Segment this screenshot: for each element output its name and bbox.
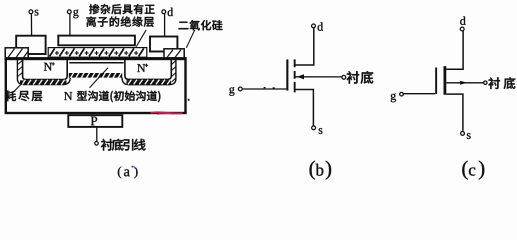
depletion hook right of channel bbox=[122, 77, 128, 84]
blue ink specks on (a) bbox=[132, 166, 137, 169]
P-type body outline bbox=[5, 57, 187, 113]
label 衬底 (c) bbox=[488, 77, 515, 89]
wire source lead (b) bbox=[296, 90, 314, 126]
gate plate (c) bbox=[435, 68, 437, 95]
channel bar (c) bbox=[444, 66, 447, 95]
leader line depletion layer bbox=[15, 83, 22, 91]
wire gate lead (c) bbox=[403, 93, 435, 95]
source electrode box bbox=[16, 36, 45, 54]
gate electrode box bbox=[58, 36, 135, 46]
channel segment bottom (b) bbox=[294, 82, 296, 93]
label 衬底引线 substrate lead bbox=[101, 139, 146, 151]
channel segment middle (b) bbox=[294, 71, 296, 79]
channel top boundary line bbox=[69, 62, 123, 64]
mosfet symbol (b) : terminal g bbox=[229, 87, 242, 96]
terminal s bbox=[29, 10, 38, 16]
leader line to insulating layer bbox=[136, 30, 146, 47]
terminal s (c) bbox=[461, 132, 471, 139]
depletion boundary around left well bbox=[17, 60, 70, 85]
channel segment top (b) bbox=[294, 59, 296, 67]
substrate arrow (c) bbox=[460, 81, 467, 85]
leader line to silicon dioxide bbox=[186, 30, 195, 48]
leader line to channel bbox=[90, 68, 109, 88]
wire source lead (c) bbox=[446, 94, 463, 131]
right hatched drain contact bbox=[164, 49, 184, 59]
gate plate (b) bbox=[286, 59, 288, 90]
terminal d (b) bbox=[312, 22, 323, 30]
label: 二氧化硅 silicon dioxide bbox=[179, 20, 223, 30]
terminal g (c) bbox=[391, 92, 404, 102]
label P bbox=[91, 117, 97, 126]
hatch left strip bbox=[18, 61, 23, 77]
ink speck near body corner bbox=[188, 99, 190, 101]
substrate terminal (c) bbox=[484, 81, 487, 84]
wire g lead bbox=[69, 14, 71, 35]
left hatched source contact bbox=[5, 48, 28, 59]
hatched depletion band under right well bbox=[127, 80, 172, 85]
red smudge artifact bbox=[151, 112, 183, 114]
left N+ well bbox=[23, 60, 68, 80]
ink specks on gate lead bbox=[264, 87, 275, 89]
substrate terminal (b) bbox=[342, 75, 346, 79]
hatched depletion band under left well bbox=[20, 80, 67, 85]
P region box bbox=[68, 115, 122, 127]
wire s lead bbox=[30, 14, 32, 36]
label (a) bbox=[118, 167, 121, 179]
wire gate lead (b) bbox=[242, 88, 286, 90]
wire substrate lead (b) bbox=[296, 76, 342, 78]
label N+ left well bbox=[44, 62, 55, 70]
substrate lead terminal bbox=[95, 142, 99, 146]
mosfet symbol (c) : terminal d bbox=[460, 16, 465, 30]
label 衬底 (b) bbox=[347, 71, 374, 84]
wire substrate lead (c) bbox=[446, 82, 483, 84]
drain electrode box bbox=[150, 37, 177, 52]
oxide band with positive ions bbox=[48, 48, 147, 58]
wire d lead bbox=[164, 14, 166, 36]
label N 型沟道(初始沟道) bbox=[64, 92, 72, 100]
wire substrate lead bbox=[96, 128, 98, 142]
right N+ well bbox=[125, 60, 171, 80]
terminal g bbox=[67, 9, 78, 18]
wire drain lead (c) bbox=[446, 31, 463, 69]
label 耗尽层 depletion layer bbox=[5, 90, 42, 101]
label: doped insulating layer line2 离子的绝缘层 bbox=[86, 16, 153, 26]
label (c) bbox=[462, 161, 467, 180]
hatch right strip bbox=[172, 61, 176, 82]
label (b) bbox=[310, 161, 315, 180]
depletion boundary around right well bbox=[128, 60, 176, 85]
wire drain lead (b) bbox=[296, 28, 314, 65]
label: doped insulating layer line1 掺杂后具有正 bbox=[89, 4, 154, 14]
terminal s (b) bbox=[312, 126, 323, 134]
label N+ right well bbox=[137, 64, 148, 72]
terminal d bbox=[162, 8, 173, 16]
N-channel hatched band (initial channel) bbox=[69, 73, 122, 78]
substrate arrow (b) bbox=[297, 74, 304, 79]
